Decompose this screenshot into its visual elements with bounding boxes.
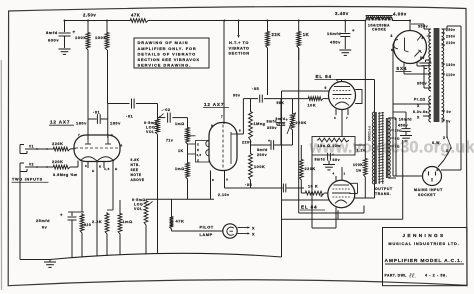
- svg-text:220K: 220K: [52, 141, 64, 146]
- tube EL84 lower top stubs: [335, 176, 337, 181]
- resistor 10K (grid stopper upper): [282, 98, 308, 100]
- wire V2 plate to splitter: [242, 99, 244, 134]
- svg-text:220K: 220K: [296, 121, 307, 125]
- capacitor 8mfd 200v (series): [270, 140, 272, 150]
- tube V2 grid bumps: [206, 141, 209, 147]
- svg-text:+: +: [73, 30, 76, 35]
- wire J1 tip: [25, 148, 52, 150]
- svg-text:16mfd: 16mfd: [327, 31, 341, 36]
- resistor 100K (V1a plate load): [87, 21, 89, 32]
- svg-text:4.00v: 4.00v: [393, 12, 407, 17]
- svg-text:110v: 110v: [446, 73, 455, 77]
- capacitor 8mfd 350v (splitter decoupling): [280, 99, 282, 122]
- svg-text:·01: ·01: [93, 110, 101, 115]
- svg-text:-·02: -·02: [162, 107, 171, 112]
- primary tap 110v: [442, 73, 446, 75]
- svg-text:47K: 47K: [176, 219, 185, 224]
- svg-text:8mfd: 8mfd: [46, 30, 58, 35]
- potentiometer 220K (hum/grid balance): [292, 99, 294, 112]
- wire socket to heater winding: [393, 175, 423, 177]
- svg-text:100K: 100K: [353, 163, 363, 167]
- svg-text:1mΩ: 1mΩ: [175, 167, 185, 171]
- svg-text:6: 6: [121, 144, 123, 148]
- resistor 1Meg (V2 grid lower): [186, 161, 190, 179]
- svg-text:X: X: [446, 149, 449, 153]
- svg-text:MAINS INPUT: MAINS INPUT: [414, 188, 443, 192]
- svg-text:SECTION: SECTION: [228, 51, 249, 56]
- resistor 100K (splitter lower): [250, 145, 252, 152]
- wire V2 bottom line: [146, 198, 214, 200]
- svg-text:0·5mΩ: 0·5mΩ: [144, 121, 158, 125]
- tube 5X4 internals: [393, 40, 398, 49]
- svg-text:NOTE: NOTE: [131, 173, 142, 177]
- svg-text:130v: 130v: [446, 63, 456, 67]
- svg-text:100K: 100K: [95, 35, 107, 40]
- svg-text:1: 1: [344, 172, 346, 176]
- mains switch: [446, 122, 448, 136]
- svg-text:2.50v: 2.50v: [83, 13, 96, 18]
- wire heater bus lower: [282, 218, 403, 220]
- svg-text:600v: 600v: [48, 38, 59, 43]
- svg-text:100K: 100K: [254, 165, 265, 169]
- wire voltage selector feed: [460, 26, 462, 170]
- resistor 100K (V1b plate load): [106, 21, 108, 32]
- wire EL84 lower plate to OT: [354, 197, 375, 199]
- tube EL84 lower envelope: [328, 180, 355, 207]
- svg-text:25mfd: 25mfd: [36, 219, 50, 223]
- resistor 100R 1w (feedback): [363, 157, 367, 177]
- svg-text:350v: 350v: [418, 25, 428, 29]
- wire V2 plate supply drop: [223, 21, 225, 125]
- svg-text:+: +: [286, 118, 289, 122]
- resistor 22K (phase splitter supply): [267, 21, 269, 31]
- mains transformer primary/heater winding: [429, 96, 431, 122]
- svg-text:JENNINGS: JENNINGS: [402, 233, 445, 238]
- ground bus: [50, 253, 282, 259]
- note box: drawing of main amplifier only: [134, 38, 209, 68]
- svg-text:220v: 220v: [242, 141, 252, 145]
- tube EL84 lower beam plate loop: [350, 182, 358, 184]
- svg-text:DETAILS OF VIBRATO: DETAILS OF VIBRATO: [138, 51, 197, 56]
- wire HT rail 250v/340v: [65, 20, 130, 22]
- wire screen column: [298, 48, 300, 213]
- svg-text:3.40v: 3.40v: [335, 11, 349, 16]
- resistor 1K (screen feed): [298, 21, 300, 31]
- pilot lamp symbol: [223, 224, 237, 238]
- svg-text:S.W.: S.W.: [432, 141, 441, 145]
- svg-text:6v: 6v: [42, 226, 48, 230]
- mains transformer right winding: [442, 29, 444, 122]
- svg-text:100K: 100K: [75, 35, 87, 40]
- primary tap 0v lower: [442, 119, 446, 121]
- svg-text:TWO INPUTS: TWO INPUTS: [12, 178, 43, 182]
- svg-text:8Ω: 8Ω: [395, 137, 400, 141]
- wire lower grid line: [282, 199, 330, 201]
- mains input socket: [423, 167, 442, 186]
- svg-text:3.9Meg ½w: 3.9Meg ½w: [53, 173, 77, 177]
- svg-text:·05: ·05: [245, 182, 253, 187]
- junction dots riser: [281, 98, 283, 100]
- primary tap 210v: [442, 44, 446, 46]
- svg-text:1mΩ: 1mΩ: [123, 220, 133, 224]
- svg-text:SERVICE DRAWING.: SERVICE DRAWING.: [138, 63, 192, 68]
- wire EL84 lower cathode to shared resistor: [335, 208, 337, 229]
- tube EL84 upper beam plate loop: [355, 90, 362, 104]
- wire jack ground to bus: [19, 172, 21, 260]
- tube V2 internal electrodes: [230, 132, 232, 164]
- svg-text:+: +: [332, 153, 335, 157]
- svg-text:210v: 210v: [446, 41, 456, 45]
- svg-text:1mΩ: 1mΩ: [175, 122, 185, 126]
- tube V1 pin wires: [81, 161, 83, 212]
- svg-text:ℓℓ.: ℓℓ.: [408, 273, 416, 280]
- tube EL84 upper internals: [334, 86, 350, 88]
- mains transformer top feed: [424, 28, 431, 30]
- svg-text:ABOVE: ABOVE: [131, 178, 145, 182]
- mains transformer HV winding: [429, 29, 431, 91]
- svg-text:7: 7: [221, 115, 223, 119]
- resistor 47K (HT dropper): [129, 19, 148, 23]
- wire EL84 upper cathode: [341, 109, 343, 136]
- capacitor 8mfd 600v (preamp decoupling): [64, 21, 66, 33]
- input jack J1: [20, 144, 24, 146]
- svg-text:56K: 56K: [277, 101, 285, 105]
- svg-text:1.2v: 1.2v: [357, 149, 366, 153]
- svg-text:OUTPUT: OUTPUT: [375, 187, 393, 191]
- svg-text:4,5: 4,5: [104, 167, 110, 171]
- svg-text:PART. DWL: PART. DWL: [385, 274, 407, 278]
- svg-text:+: +: [268, 139, 271, 143]
- svg-text:+ 16mfd: + 16mfd: [395, 118, 413, 122]
- svg-text:8mfd: 8mfd: [276, 117, 286, 121]
- svg-text:LAMP: LAMP: [200, 232, 213, 237]
- output transformer core: [378, 112, 380, 184]
- svg-text:3: 3: [85, 164, 87, 168]
- capacitor .01 (coupling ch1): [131, 99, 133, 109]
- tube EL84 lower internals: [334, 184, 350, 186]
- svg-text:6: 6: [239, 129, 241, 133]
- svg-text:12 AX7: 12 AX7: [204, 102, 224, 107]
- wire V1b plate to volume 1: [108, 103, 130, 105]
- svg-text:1w: 1w: [356, 169, 362, 173]
- svg-text:1K: 1K: [178, 149, 184, 153]
- resistor 1K (V2 cathode): [187, 144, 189, 161]
- ground (reservoir): [400, 135, 412, 137]
- svg-text:TRANS.: TRANS.: [375, 192, 391, 196]
- svg-text:15Ω: 15Ω: [395, 129, 402, 133]
- tube 5X4 rectifier envelope: [394, 31, 427, 64]
- tube EL84 upper envelope: [329, 82, 356, 110]
- svg-text:3: 3: [334, 116, 336, 120]
- svg-text:MUSICAL INDUSTRIES LTD.: MUSICAL INDUSTRIES LTD.: [388, 241, 459, 246]
- svg-text:220K: 220K: [52, 159, 64, 164]
- svg-text:2.10v: 2.10v: [218, 193, 230, 197]
- svg-text:3Ω: 3Ω: [395, 145, 400, 149]
- svg-text:X: X: [252, 227, 255, 231]
- chassis ground symbol: [49, 260, 51, 262]
- svg-text:N: N: [437, 168, 439, 172]
- svg-text:2.2K: 2.2K: [92, 220, 102, 224]
- svg-text:VOL.: VOL.: [146, 130, 156, 134]
- svg-text:250v: 250v: [276, 122, 285, 126]
- svg-text:9: 9: [325, 86, 327, 90]
- wire grid entries to V2: [184, 135, 196, 137]
- svg-text:K: K: [99, 165, 102, 169]
- wire heater line to pilot lamp: [172, 230, 223, 232]
- svg-text:EL 84: EL 84: [301, 205, 317, 210]
- tube V2 plate pin 6 out: [237, 133, 243, 135]
- wire cathode node to 100R column: [355, 144, 365, 146]
- wire rail to rectifier: [409, 21, 411, 31]
- svg-text:AMPLIFIER ONLY. FOR: AMPLIFIER ONLY. FOR: [138, 46, 197, 51]
- svg-text:CHOKE: CHOKE: [372, 28, 386, 32]
- svg-text:NTB.: NTB.: [131, 163, 141, 167]
- svg-text:8: 8: [391, 34, 393, 38]
- svg-text:60v: 60v: [333, 158, 341, 162]
- mains transformer core: [434, 28, 440, 122]
- svg-text:PILOT: PILOT: [200, 225, 214, 230]
- tube V2 pin wires: [210, 171, 212, 200]
- wire splitter return riser: [281, 91, 283, 257]
- potentiometer 0.5Meg log volume 2: [144, 199, 148, 225]
- svg-text:22K: 22K: [272, 32, 281, 37]
- resistor 220K (grid stopper ch2): [52, 165, 70, 169]
- resistor 130R 10w (shared cathode, boxed): [312, 137, 355, 156]
- svg-text:X: X: [197, 158, 199, 162]
- svg-text:0v: 0v: [447, 110, 452, 114]
- tube V2 12AX7 envelope: [209, 123, 237, 171]
- svg-text:350v: 350v: [267, 126, 277, 130]
- capacitor 16mfd 450v (HT filter): [344, 21, 346, 33]
- svg-text:1Meg: 1Meg: [254, 122, 266, 126]
- svg-text:47K: 47K: [131, 13, 140, 18]
- ground (8mfd): [59, 48, 71, 50]
- capacitor .05 (coupling lower): [282, 184, 284, 193]
- svg-text:8mfd: 8mfd: [257, 148, 268, 152]
- svg-text:250v: 250v: [446, 28, 456, 32]
- svg-text:A: A: [226, 178, 229, 182]
- svg-text:6.3v.6a: 6.3v.6a: [413, 110, 428, 114]
- heater connection box (V2 socket detail): [196, 141, 210, 163]
- resistor 1Meg (splitter upper): [250, 99, 252, 110]
- tube V1 12AX7 envelope: [74, 135, 120, 162]
- wire 5X4 filament link: [427, 35, 432, 37]
- svg-text:1K: 1K: [303, 32, 309, 37]
- svg-text:0v: 0v: [420, 56, 425, 60]
- svg-text:2: 2: [111, 133, 113, 137]
- capacitor .05 (coupling upper): [259, 95, 261, 103]
- tube V1 internal electrodes: [87, 136, 89, 145]
- svg-text:L: L: [425, 168, 427, 172]
- resistor 47K (heater dropper): [171, 199, 173, 215]
- svg-text:LOG: LOG: [134, 203, 143, 207]
- svg-text:·01: ·01: [126, 114, 134, 119]
- svg-text:X: X: [197, 143, 199, 147]
- svg-text:8: 8: [212, 178, 214, 182]
- svg-text:H: H: [92, 169, 95, 173]
- HV centre tap 0v with ground: [426, 59, 432, 61]
- resistor 1Meg (grid return): [119, 200, 121, 212]
- svg-text:220K: 220K: [305, 167, 316, 171]
- svg-text:SEE: SEE: [131, 168, 139, 172]
- junction dots on HT rail: [64, 20, 66, 22]
- svg-text:V2: V2: [29, 163, 34, 167]
- wire 5X4 anode lower to HV winding: [416, 62, 418, 67]
- svg-text:10 K: 10 K: [308, 185, 318, 189]
- svg-text:EL 84: EL 84: [316, 74, 332, 79]
- input jack J2: [20, 162, 24, 164]
- wire V2 lower plate line: [225, 187, 283, 189]
- svg-text:X: X: [252, 233, 255, 237]
- svg-text:X: X: [417, 116, 420, 120]
- svg-text:180v: 180v: [76, 121, 87, 126]
- svg-text:10K: 10K: [308, 104, 317, 108]
- svg-text:+: +: [352, 28, 355, 33]
- resistor 10K (grid stopper lower): [300, 188, 302, 193]
- capacitor .01 (bridge between V1 plates): [88, 118, 97, 120]
- output transformer secondary taps: [388, 117, 396, 119]
- title block frame: [383, 228, 468, 286]
- svg-text:180v: 180v: [110, 121, 121, 126]
- wire 5X4 pin to left rail: [393, 43, 394, 45]
- svg-text:SECTION SEE VIBRAVOX: SECTION SEE VIBRAVOX: [138, 57, 200, 62]
- potentiometer 0.5Meg log volume 1: [156, 118, 160, 135]
- svg-text:X: X: [443, 136, 446, 140]
- ground (16mfd): [339, 49, 351, 51]
- svg-text:13o.Ω.10w: 13o.Ω.10w: [318, 144, 341, 148]
- capacitor 8mfd 60v (cathode bypass): [327, 153, 329, 161]
- output transformer primary: [374, 112, 377, 184]
- svg-text:Pr.2Ω: Pr.2Ω: [414, 98, 426, 102]
- choke 10H 250mA: [366, 17, 392, 20]
- svg-text:820: 820: [84, 223, 91, 227]
- pilot lamp X links: [238, 227, 250, 229]
- capacitor .02 (to V2 grid): [158, 117, 166, 119]
- primary tap 0v mid: [442, 110, 446, 112]
- svg-text:6.8K: 6.8K: [131, 158, 140, 162]
- svg-text:5X4: 5X4: [397, 66, 408, 71]
- resistor 220K (grid return lower): [300, 145, 302, 158]
- svg-text:V1: V1: [29, 145, 34, 149]
- svg-text:71v: 71v: [166, 139, 173, 143]
- svg-text:4,5: 4,5: [197, 154, 202, 157]
- svg-text:12 AX7: 12 AX7: [50, 120, 70, 125]
- svg-text:200v: 200v: [257, 153, 267, 157]
- svg-text:LOG: LOG: [146, 126, 155, 130]
- svg-text:4: 4: [333, 172, 335, 176]
- svg-text:AMPLIFIER MODEL A.C.1.: AMPLIFIER MODEL A.C.1.: [385, 258, 463, 264]
- wire upper grid line: [282, 90, 330, 92]
- svg-text:4 - 2 - 58.: 4 - 2 - 58.: [425, 274, 447, 278]
- resistor 220K (grid stopper ch1): [52, 147, 70, 151]
- wire screen supply 340v drop: [364, 21, 366, 158]
- svg-text:DRAWING OF MAIN: DRAWING OF MAIN: [138, 40, 189, 45]
- svg-text:VOL.: VOL.: [134, 207, 144, 211]
- svg-text:SOCKET: SOCKET: [418, 193, 436, 197]
- svg-text:7: 7: [78, 133, 80, 137]
- svg-text:H: H: [115, 167, 118, 171]
- svg-text:0·5mΩ: 0·5mΩ: [132, 198, 146, 202]
- wire HT feed to vibrato with arrow: [238, 21, 240, 36]
- svg-text:9: 9: [211, 124, 213, 128]
- svg-text:VIBRATO: VIBRATO: [229, 45, 250, 50]
- primary tap 230v: [442, 38, 446, 40]
- svg-text:X: X: [417, 104, 420, 108]
- svg-text:230v: 230v: [446, 35, 456, 39]
- output transformer secondary: [386, 118, 389, 178]
- svg-text:7: 7: [346, 116, 348, 120]
- svg-text:6: 6: [422, 36, 424, 40]
- resistor 820 (V1 cathode): [80, 213, 84, 233]
- svg-text:9: 9: [321, 194, 323, 198]
- svg-text:90v: 90v: [233, 94, 241, 98]
- svg-text:8mfd: 8mfd: [315, 158, 326, 162]
- primary tap 130v: [442, 63, 446, 65]
- svg-text:K: K: [197, 148, 200, 152]
- capacitor 25mfd 6v (V1 cathode bypass): [68, 211, 84, 213]
- svg-text:350v: 350v: [417, 82, 427, 86]
- wire 220v node: [251, 144, 271, 146]
- primary tap 250v: [442, 32, 446, 34]
- wire 5X4 anode upper to HV winding: [403, 63, 405, 74]
- svg-text:H.T.+ TO: H.T.+ TO: [229, 40, 249, 45]
- resistor 1Meg (V2 grid upper): [187, 118, 189, 126]
- wire EL84 upper plate to OT: [341, 80, 343, 82]
- svg-text:450v: 450v: [398, 124, 408, 128]
- svg-text:450v: 450v: [330, 40, 341, 45]
- wire J2 tip: [25, 166, 52, 168]
- svg-text:+: +: [60, 213, 63, 218]
- resistor 2.2K (hum balance): [107, 209, 113, 211]
- svg-text:9000Ω a-a: 9000Ω a-a: [368, 126, 372, 141]
- svg-text:·05: ·05: [252, 86, 260, 91]
